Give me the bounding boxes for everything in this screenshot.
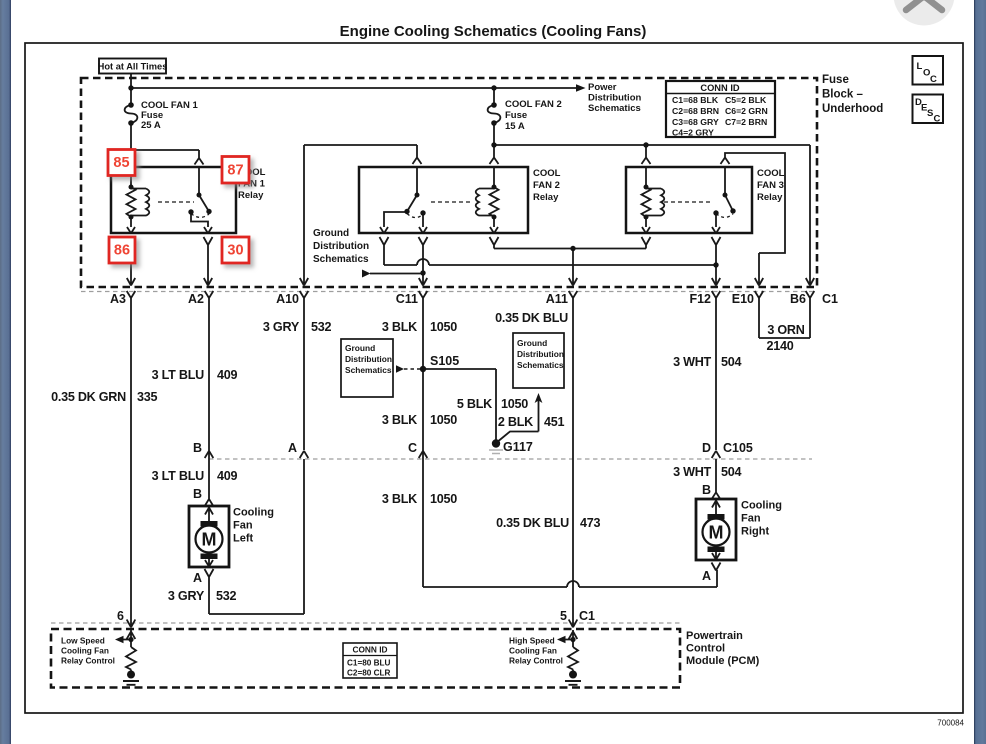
svg-text:Cooling: Cooling: [741, 500, 782, 512]
svg-text:504: 504: [721, 465, 742, 479]
svg-text:504: 504: [721, 355, 742, 369]
svg-text:M: M: [709, 523, 724, 543]
svg-text:Cooling Fan: Cooling Fan: [61, 646, 109, 656]
svg-text:0.35 DK BLU: 0.35 DK BLU: [496, 516, 569, 530]
svg-text:Distribution: Distribution: [588, 93, 641, 104]
svg-text:C11: C11: [396, 292, 418, 306]
svg-text:Schematics: Schematics: [517, 360, 564, 370]
svg-text:CONN ID: CONN ID: [700, 83, 740, 93]
svg-text:A2: A2: [188, 292, 204, 306]
svg-text:COOL FAN 2: COOL FAN 2: [505, 99, 562, 110]
svg-text:High Speed: High Speed: [509, 636, 555, 646]
svg-text:85: 85: [113, 155, 129, 171]
svg-text:3 LT BLU: 3 LT BLU: [152, 469, 204, 483]
svg-text:Engine Cooling Schematics (Coo: Engine Cooling Schematics (Cooling Fans): [340, 23, 647, 40]
svg-text:0.35 DK BLU: 0.35 DK BLU: [495, 311, 568, 325]
svg-text:Ground: Ground: [345, 343, 375, 353]
svg-text:Relay: Relay: [757, 192, 783, 203]
svg-text:87: 87: [227, 163, 243, 179]
svg-text:C: C: [934, 114, 941, 125]
svg-text:COOL: COOL: [533, 168, 561, 179]
svg-text:Underhood: Underhood: [822, 103, 883, 115]
svg-text:532: 532: [216, 589, 237, 603]
svg-text:Ground: Ground: [517, 338, 547, 348]
svg-text:Right: Right: [741, 526, 769, 538]
svg-text:3 GRY: 3 GRY: [168, 589, 205, 603]
svg-text:A: A: [193, 571, 202, 585]
svg-text:D: D: [702, 441, 711, 455]
svg-text:C7=2 BRN: C7=2 BRN: [725, 117, 767, 127]
svg-text:86: 86: [114, 243, 130, 259]
svg-text:FAN 2: FAN 2: [533, 180, 560, 191]
svg-text:C3=68 GRY: C3=68 GRY: [672, 117, 719, 127]
svg-text:3 WHT: 3 WHT: [673, 465, 711, 479]
svg-text:Fan: Fan: [233, 520, 253, 532]
svg-text:Schematics: Schematics: [345, 365, 392, 375]
svg-text:Relay: Relay: [533, 192, 559, 203]
svg-text:1050: 1050: [430, 413, 457, 427]
svg-text:B6: B6: [790, 292, 806, 306]
svg-text:451: 451: [544, 415, 565, 429]
svg-text:F12: F12: [689, 292, 711, 306]
svg-text:A3: A3: [110, 292, 126, 306]
svg-text:335: 335: [137, 390, 158, 404]
svg-text:473: 473: [580, 516, 601, 530]
svg-text:Powertrain: Powertrain: [686, 630, 743, 642]
svg-text:3 LT BLU: 3 LT BLU: [152, 368, 204, 382]
svg-text:Relay Control: Relay Control: [61, 656, 115, 666]
svg-text:3 BLK: 3 BLK: [382, 492, 417, 506]
svg-text:Control: Control: [686, 643, 725, 655]
svg-text:532: 532: [311, 320, 332, 334]
svg-text:C2=68 BRN: C2=68 BRN: [672, 106, 719, 116]
svg-text:Cooling Fan: Cooling Fan: [509, 646, 557, 656]
svg-text:Block –: Block –: [822, 89, 864, 101]
svg-text:3 WHT: 3 WHT: [673, 355, 711, 369]
svg-text:Fuse: Fuse: [822, 74, 849, 86]
svg-text:C1: C1: [822, 292, 838, 306]
svg-text:B: B: [702, 483, 711, 497]
svg-text:Schematics: Schematics: [313, 254, 369, 265]
svg-text:Relay Control: Relay Control: [509, 656, 563, 666]
svg-text:G117: G117: [503, 440, 533, 454]
svg-text:C2=80 CLR: C2=80 CLR: [347, 669, 391, 678]
svg-text:C1=80 BLU: C1=80 BLU: [347, 659, 391, 668]
svg-text:6: 6: [117, 609, 124, 623]
svg-text:5 BLK: 5 BLK: [457, 397, 492, 411]
svg-text:3 BLK: 3 BLK: [382, 320, 417, 334]
svg-text:B: B: [193, 441, 202, 455]
svg-text:Power: Power: [588, 82, 617, 93]
svg-text:2140: 2140: [766, 339, 793, 353]
svg-text:Module (PCM): Module (PCM): [686, 655, 760, 667]
svg-text:E10: E10: [732, 292, 754, 306]
svg-text:Distribution: Distribution: [517, 349, 564, 359]
svg-text:700084: 700084: [937, 719, 964, 728]
svg-text:3 ORN: 3 ORN: [767, 323, 804, 337]
svg-text:C6=2 GRN: C6=2 GRN: [725, 106, 768, 116]
svg-text:2 BLK: 2 BLK: [498, 415, 533, 429]
svg-text:C: C: [408, 441, 417, 455]
svg-text:A10: A10: [276, 292, 299, 306]
svg-text:1050: 1050: [430, 492, 457, 506]
svg-text:0.35 DK GRN: 0.35 DK GRN: [51, 390, 126, 404]
svg-text:B: B: [193, 487, 202, 501]
svg-text:25 A: 25 A: [141, 120, 161, 131]
svg-text:CONN ID: CONN ID: [352, 645, 387, 655]
svg-text:5: 5: [560, 609, 567, 623]
svg-text:1050: 1050: [501, 397, 528, 411]
svg-text:30: 30: [227, 243, 243, 259]
svg-text:Hot at All Times: Hot at All Times: [98, 62, 168, 72]
svg-text:409: 409: [217, 368, 238, 382]
svg-text:Ground: Ground: [313, 228, 349, 239]
svg-text:409: 409: [217, 469, 238, 483]
svg-text:Fuse: Fuse: [505, 110, 527, 121]
svg-text:C1=68 BLK: C1=68 BLK: [672, 95, 719, 105]
svg-text:3 GRY: 3 GRY: [263, 320, 300, 334]
svg-text:Relay: Relay: [238, 190, 264, 201]
svg-text:FAN 3: FAN 3: [757, 180, 784, 191]
svg-text:Distribution: Distribution: [313, 241, 369, 252]
svg-text:S105: S105: [430, 354, 459, 368]
svg-text:M: M: [202, 530, 217, 550]
svg-text:15 A: 15 A: [505, 121, 525, 132]
svg-text:C: C: [930, 74, 937, 85]
svg-text:C4=2 GRY: C4=2 GRY: [672, 128, 714, 138]
svg-text:COOL: COOL: [757, 168, 785, 179]
svg-text:3 BLK: 3 BLK: [382, 413, 417, 427]
svg-text:A: A: [702, 569, 711, 583]
svg-text:L: L: [917, 61, 923, 72]
svg-text:A: A: [288, 441, 297, 455]
svg-text:Schematics: Schematics: [588, 103, 641, 114]
svg-text:C105: C105: [723, 441, 753, 455]
svg-text:Left: Left: [233, 533, 254, 545]
svg-text:C5=2 BLK: C5=2 BLK: [725, 95, 767, 105]
svg-text:S: S: [927, 108, 933, 119]
svg-text:1050: 1050: [430, 320, 457, 334]
svg-text:Cooling: Cooling: [233, 507, 274, 519]
svg-text:Low Speed: Low Speed: [61, 636, 105, 646]
svg-text:Fan: Fan: [741, 513, 761, 525]
svg-text:A11: A11: [546, 292, 568, 306]
svg-text:Distribution: Distribution: [345, 354, 392, 364]
svg-text:C1: C1: [579, 609, 595, 623]
